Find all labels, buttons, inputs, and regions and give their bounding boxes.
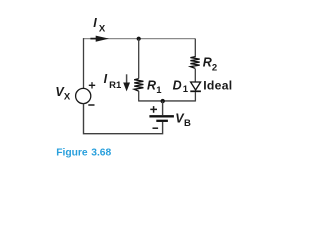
battery upper stem (162, 101, 164, 115)
diode D1 triangle (191, 82, 201, 90)
battery VB long plate (149, 115, 174, 117)
svg-text:I: I (104, 72, 108, 86)
battery VB short plate (156, 120, 168, 122)
svg-text:D: D (173, 79, 182, 93)
wire R2 branch vertical top (194, 39, 196, 58)
wire R1 branch vertical top (138, 39, 140, 79)
wire left vertical (83, 38, 85, 88)
label IR1 (104, 72, 122, 91)
current arrow IR1 (123, 74, 130, 91)
node dot top junction (137, 37, 141, 41)
label Ix (93, 16, 106, 35)
label R2 (203, 55, 217, 73)
node dot battery junction (161, 99, 165, 103)
diode D1 cathode bar (190, 90, 201, 92)
label R1 (147, 78, 162, 96)
svg-text:R: R (147, 78, 156, 92)
plus sign of VB (150, 106, 157, 113)
wire below Vx, bottom wire, battery lower stem (84, 104, 163, 134)
svg-text:1: 1 (156, 85, 162, 96)
wire R1 bottom (138, 91, 140, 102)
svg-text:I: I (93, 16, 97, 30)
voltage source Vx (76, 88, 91, 103)
minus sign of VB (153, 127, 159, 129)
svg-text:Figure 3.68: Figure 3.68 (56, 148, 111, 159)
svg-text:R1: R1 (109, 80, 122, 91)
svg-text:B: B (184, 118, 191, 129)
label Vx (55, 85, 71, 102)
svg-text:Ideal: Ideal (203, 79, 232, 93)
svg-text:1: 1 (183, 84, 189, 95)
wire R2 to D1 (194, 69, 196, 82)
svg-text:R: R (203, 55, 212, 69)
label D1 (173, 79, 189, 96)
current arrow Ix (90, 36, 109, 42)
wire mid horizontal (R1 bottom to D1 bottom) (139, 100, 196, 102)
wire D1 bottom (194, 92, 196, 102)
svg-text:X: X (99, 24, 106, 35)
plus sign of Vx (89, 82, 95, 88)
wire top horizontal (84, 38, 196, 40)
minus sign of Vx (88, 104, 94, 106)
label VB (175, 111, 191, 129)
resistor R2 (190, 57, 199, 69)
resistor R1 (134, 79, 143, 92)
svg-text:2: 2 (212, 62, 217, 73)
svg-text:X: X (64, 91, 71, 102)
